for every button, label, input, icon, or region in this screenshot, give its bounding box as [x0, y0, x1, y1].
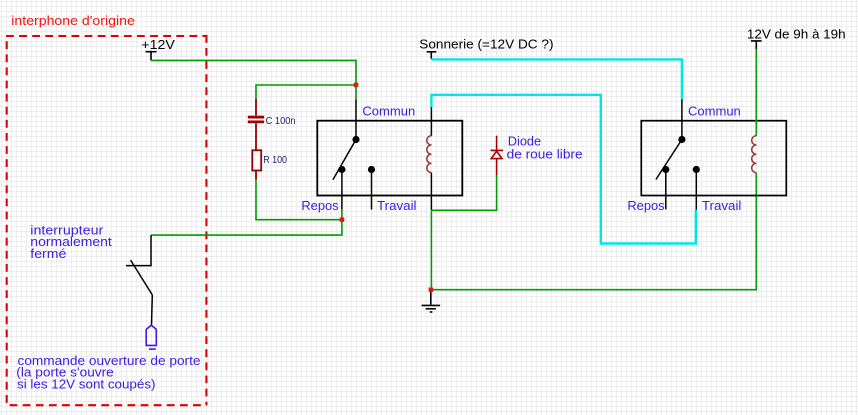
terminal: Sonnerie — [427, 52, 437, 59]
relay K2 contact dots — [662, 136, 700, 173]
connector: commande ouverture de porte — [146, 325, 156, 349]
svg-text:Travail: Travail — [702, 198, 742, 213]
interrupteur normalement ferme (NC switch) — [126, 235, 152, 325]
power terminal 12V de 9h à 19h — [751, 41, 762, 49]
relay K1 switch arm — [333, 140, 356, 180]
capacitor C 100n — [248, 116, 264, 124]
relay K1 repos pin — [341, 170, 343, 210]
relay K1 contact dots — [338, 136, 375, 173]
diode D1 (roue libre) — [491, 150, 504, 175]
label: Diode de roue libre — [507, 133, 583, 161]
svg-text:Travail: Travail — [377, 198, 417, 213]
svg-text:fermé: fermé — [30, 246, 66, 261]
relay K1 commun pin — [355, 99, 357, 139]
wire: 12V terminal to relay K2 coil top (green) — [755, 49, 757, 136]
relay K2 commun pin — [681, 99, 683, 139]
relay K2 switch arm — [656, 140, 682, 180]
relay K2 coil — [752, 136, 757, 173]
wire: node C down to ground node (green) — [430, 210, 432, 289]
svg-text:Commun: Commun — [362, 103, 415, 118]
wire: relay K1 coil to relay K2 travail (cyan) — [431, 95, 695, 244]
svg-text:Repos: Repos — [627, 198, 665, 213]
ground symbol — [422, 292, 441, 312]
svg-text:Repos: Repos — [301, 198, 339, 213]
svg-text:R 100: R 100 — [263, 155, 287, 166]
diode D1 top lead — [496, 136, 498, 150]
relay K2 repos pin — [665, 170, 667, 210]
relay K1 box — [317, 121, 462, 196]
wire: diode to coil node C (green) — [431, 175, 496, 210]
wire: ground node to relay K2 coil bottom (green) — [431, 173, 756, 290]
wire: Sonnerie to relay K2 commun (cyan) — [431, 59, 682, 99]
svg-text:+12V: +12V — [141, 37, 175, 52]
power terminal +12V — [146, 52, 157, 61]
svg-text:Sonnerie (=12V DC ?): Sonnerie (=12V DC ?) — [419, 37, 553, 52]
junction node B — [340, 217, 345, 222]
wire: node A to capacitor branch (green) — [256, 85, 356, 99]
wire: resistor bottom to node B (green) — [256, 180, 342, 220]
relay K1 travail pin — [371, 170, 373, 210]
svg-text:si les 12V sont coupés): si les 12V sont coupés) — [17, 377, 156, 392]
relay K2 travail pin — [695, 170, 697, 210]
junction node A — [354, 83, 359, 88]
capacitor to resistor lead — [255, 123, 257, 150]
junction ground node — [429, 288, 434, 293]
wire: node A to relay K1 commun pin (green) — [355, 85, 357, 99]
wire: node B to interrupteur (green) — [151, 220, 342, 235]
resistor R 100 — [252, 150, 261, 170]
relay K2 box — [641, 121, 786, 196]
relay K1 coil bottom pin — [430, 173, 432, 210]
relay K1 coil — [427, 136, 432, 173]
svg-text:Commun: Commun — [688, 103, 741, 118]
label: interrupteur normalement fermé — [30, 222, 112, 260]
capacitor C1 top lead — [255, 99, 257, 116]
svg-text:de roue libre: de roue libre — [507, 147, 583, 162]
svg-text:C 100n: C 100n — [266, 116, 296, 127]
wire: relay1 repos pin to node B (green) — [341, 209, 343, 219]
enclosure box: interphone d'origine (dashed) — [6, 35, 206, 405]
relay K1 coil top pin — [430, 107, 432, 136]
label: commande ouverture de porte — [16, 353, 200, 392]
svg-text:interphone d'origine: interphone d'origine — [11, 13, 134, 28]
svg-text:12V de 9h à 19h: 12V de 9h à 19h — [747, 26, 846, 41]
resistor bottom lead — [255, 171, 257, 180]
wire: +12V to node A (green) — [151, 60, 356, 85]
